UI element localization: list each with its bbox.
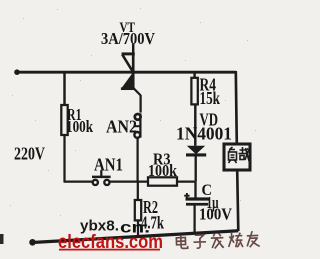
resistor R3 <box>148 177 177 185</box>
svg-text:100k: 100k <box>66 117 93 136</box>
wire VD to node at R3 right <box>195 156 197 182</box>
capacitor C plates <box>186 199 210 204</box>
wire AN2 down to node <box>136 138 138 182</box>
resistor R4 <box>191 78 197 105</box>
diode VD <box>186 146 206 155</box>
svg-text:15k: 15k <box>200 88 221 108</box>
load box (fu zai) <box>224 144 250 170</box>
wire from top rail down to R1 <box>63 73 65 105</box>
scan speckle noise <box>10 8 256 216</box>
wire node down to capacitor C <box>194 182 196 198</box>
svg-text:AN2: AN2 <box>106 117 137 137</box>
wire R2 to bottom rail <box>137 220 139 237</box>
edge blob bottom-left <box>0 234 4 244</box>
svg-text:220V: 220V <box>14 143 45 163</box>
gate lead of VT <box>134 89 141 113</box>
wire R1 to AN1 corner <box>64 135 93 182</box>
svg-text:1N4001: 1N4001 <box>176 124 232 144</box>
triac VT <box>121 44 141 113</box>
wire top rail <box>16 71 236 74</box>
resistor R1 <box>61 105 67 135</box>
wire capacitor to bottom rail <box>193 206 195 234</box>
node top-left terminal <box>14 69 20 75</box>
wire bottom rail <box>32 231 238 243</box>
svg-text:3A/700V: 3A/700V <box>101 29 156 48</box>
capacitor plus sign <box>184 193 189 198</box>
pushbutton AN2 (normally closed) <box>134 113 141 137</box>
wire right bus lower <box>237 170 238 231</box>
node bottom-left terminal <box>29 239 36 246</box>
pushbutton AN1 <box>92 171 111 185</box>
watermark chinese characters dian-zi-fa-shao-you <box>176 231 260 250</box>
svg-text:100V: 100V <box>199 205 232 224</box>
wire right bus upper <box>236 71 237 145</box>
wire node down to R2 <box>137 182 139 200</box>
wire top rail down to R4 <box>193 73 195 78</box>
load box text fu-zai strokes <box>229 147 250 163</box>
wire R4 to diode VD <box>194 105 196 146</box>
wire AN1 to node and on to R3 <box>109 180 194 182</box>
svg-text:AN1: AN1 <box>94 155 123 175</box>
watermark red underline <box>59 249 160 251</box>
resistor R2 <box>135 200 141 220</box>
svg-text:100k: 100k <box>148 161 178 180</box>
